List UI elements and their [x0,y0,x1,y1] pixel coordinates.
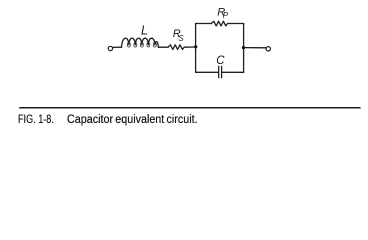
svg-text:C: C [216,55,225,67]
svg-text:P: P [223,11,229,20]
svg-text:S: S [178,34,184,43]
svg-text:L: L [141,24,148,38]
